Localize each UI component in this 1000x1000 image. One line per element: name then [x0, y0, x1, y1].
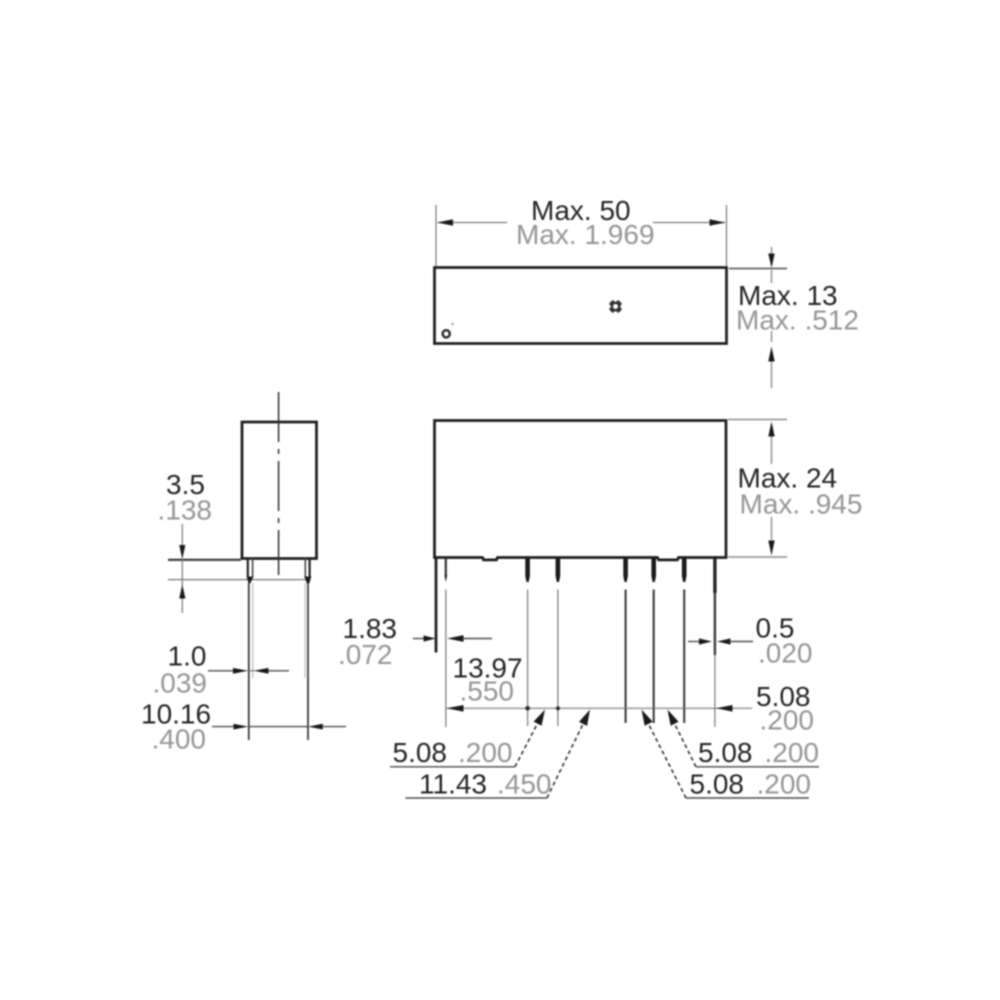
svg-text:.550: .550 — [460, 676, 515, 707]
pin 7 upper thick part — [713, 556, 716, 593]
dim 1.0 mid segment — [247, 670, 255, 672]
tick dot at pin2 on dimension line — [525, 706, 530, 711]
pin 1 right edge tip — [444, 575, 447, 582]
arrowhead 1.83 left (right-pointing) — [424, 635, 436, 641]
dim 1.83 tail left — [413, 638, 427, 640]
dim 1.0 tail right — [269, 670, 290, 672]
pin 6 extension line — [683, 590, 685, 724]
arrowhead 3.5 bottom (up) — [179, 585, 185, 599]
extension line left (Max.50) — [435, 205, 437, 266]
underline row1 left — [390, 766, 515, 768]
svg-text:.138: .138 — [158, 495, 213, 526]
arrowhead 1.83 right (left-pointing) — [447, 635, 464, 642]
pin 1 (wide left pin) left edge — [435, 558, 438, 653]
pin 3 stub — [556, 558, 561, 582]
pin 5 stub — [651, 558, 656, 582]
svg-text:Max. 1.969: Max. 1.969 — [516, 219, 655, 250]
dim 1.0 tail left — [208, 670, 234, 672]
tick dot at pin3 on dimension line — [556, 706, 560, 710]
svg-text:Max. .512: Max. .512 — [736, 305, 859, 336]
end view right pin right edge — [309, 558, 311, 577]
pin 1 extension line — [445, 590, 447, 728]
svg-text:5.08: 5.08 — [698, 737, 753, 768]
pin 3 extension line — [557, 590, 559, 727]
svg-text:.200: .200 — [765, 737, 820, 768]
end view body outline — [242, 422, 317, 559]
top edge extension for Max.13 — [729, 268, 787, 270]
pin 2 stub — [525, 558, 530, 582]
arrowhead 10.16 right (left-pointing) — [308, 724, 323, 730]
svg-text:5.08: 5.08 — [690, 769, 745, 800]
top view body outline — [435, 268, 727, 344]
svg-text:.400: .400 — [152, 724, 207, 755]
svg-text:.200: .200 — [458, 737, 513, 768]
arrowhead 10.16 left (right-pointing) — [234, 724, 249, 730]
side view body outline with bottom notches — [435, 421, 727, 560]
pin 4 stub — [623, 558, 628, 582]
end view right pin lower line — [307, 583, 309, 740]
pin 7 lower part — [714, 593, 716, 655]
svg-text:.200: .200 — [760, 705, 815, 736]
svg-text:.450: .450 — [497, 769, 552, 800]
dim 0.5 tail left — [688, 641, 700, 643]
dim 3.5 shaft top — [181, 524, 183, 546]
dim 3.5 mid segment — [181, 557, 183, 586]
pin 1 right edge — [445, 558, 447, 575]
pin 2 extension line — [527, 590, 529, 727]
leader arrow to gap pin5-pin6 — [674, 722, 697, 767]
arrowhead 0.5 left (right-pointing) — [699, 638, 712, 644]
svg-text:11.43: 11.43 — [419, 769, 487, 800]
pin 7 extension line — [714, 655, 716, 727]
svg-text:5.08: 5.08 — [393, 737, 448, 768]
top view pin-1 locator circle — [443, 330, 450, 337]
extension line right (Max.50) — [726, 205, 728, 266]
body bottom extension line — [168, 559, 241, 561]
svg-text:Max. .945: Max. .945 — [740, 489, 863, 520]
dimension line Max.50 left segment — [438, 222, 507, 224]
arrowhead main line at pin1 (left-pointing) — [447, 705, 464, 712]
arrowhead 1.0 left (right-pointing) — [233, 668, 248, 674]
arrowhead Max.50 right — [710, 219, 726, 225]
arrowhead Max.24 top (up) — [768, 422, 774, 437]
Max.24 dim shafts — [771, 437, 773, 465]
underline row2 right — [686, 797, 809, 799]
pin 5 extension line — [653, 590, 655, 724]
Max.13 dim thin segments — [771, 270, 773, 283]
svg-text:.200: .200 — [757, 769, 812, 800]
leader arrow to gap pin3-pin4 — [547, 722, 584, 798]
Max.13 dim shaft below — [771, 362, 773, 389]
end view left pin lower line — [248, 583, 250, 740]
dimension line Max.50 right segment — [653, 222, 725, 224]
arrowhead Max.13 bottom (up) — [768, 347, 774, 362]
top view small dot — [451, 323, 454, 326]
leader arrow to gap pin4-pin5 — [648, 722, 687, 798]
underline row2 left — [406, 797, 548, 799]
main bottom dimension line — [446, 707, 752, 709]
pin standoff line — [168, 579, 310, 581]
top view vent marker (4 beads) — [606, 297, 625, 316]
pin 4 extension line — [625, 590, 627, 724]
dim 10.16 mid segment — [248, 726, 307, 728]
end view left pin shoulder — [247, 577, 254, 584]
arrowhead 1.0 right (left-pointing) — [254, 668, 269, 674]
end view right pin thin lower edge — [304, 583, 306, 678]
bottom edge extension for Max.24 — [728, 556, 787, 558]
end view left pin thin lower edge — [252, 583, 254, 678]
svg-text:.072: .072 — [338, 639, 393, 670]
arrowhead 0.5 right (left-pointing) — [717, 638, 731, 644]
arrowhead Max.50 left — [437, 219, 453, 225]
dim 3.5 shaft bottom — [181, 599, 183, 614]
arrowhead Max.13 top (down) — [768, 254, 774, 269]
dim 10.16 tail right — [323, 726, 346, 728]
underline row1 right — [696, 766, 819, 768]
arrowhead main line at pin7 (left-pointing) — [716, 705, 733, 712]
arrowhead 3.5 top (down) — [179, 545, 185, 559]
dim 1.83 tail right — [463, 638, 492, 640]
end view centerline — [278, 392, 280, 575]
end view right pin left edge — [304, 558, 306, 577]
end view left pin left edge — [247, 558, 249, 577]
pin 6 stub — [682, 558, 687, 582]
dim 10.16 tail left — [212, 726, 234, 728]
svg-text:.039: .039 — [153, 668, 208, 699]
end view right pin shoulder — [304, 577, 311, 584]
svg-text:.020: .020 — [758, 638, 813, 669]
leader arrow to gap pin2-pin3 — [515, 722, 539, 767]
dim 0.5 tail right — [730, 641, 754, 643]
top edge extension for Max.24 — [728, 419, 787, 421]
end view left pin right edge — [252, 558, 254, 577]
Max.13 dim shaft above — [771, 247, 773, 256]
arrowhead Max.24 bottom (down) — [768, 541, 774, 556]
